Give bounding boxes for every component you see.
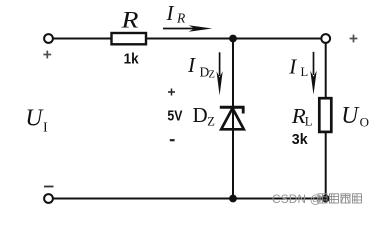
- svg-text:I: I: [288, 54, 297, 78]
- svg-text:D: D: [193, 103, 208, 127]
- zener diode DZ cathode tick: [242, 107, 245, 114]
- svg-text:3k: 3k: [292, 131, 308, 148]
- svg-text:CSDN @: CSDN @: [272, 192, 322, 206]
- polarity - zener: [170, 139, 175, 141]
- svg-text:O: O: [360, 114, 369, 129]
- arrow IR current: [163, 28, 196, 30]
- polarity + zener: [168, 89, 175, 96]
- wire zener branch vertical: [232, 39, 234, 199]
- node junction bottom load: [322, 195, 330, 203]
- svg-text:Z: Z: [207, 115, 215, 129]
- svg-text:U: U: [25, 104, 44, 131]
- node junction bottom zener: [229, 195, 237, 203]
- resistor RL: [319, 98, 331, 132]
- zener diode DZ cathode bar: [220, 106, 245, 109]
- wire bottom horizontal: [53, 198, 326, 200]
- polarity + input top: [43, 51, 51, 59]
- wire load branch vertical: [325, 42, 327, 199]
- node junction top: [229, 35, 237, 43]
- terminal output +: [321, 34, 330, 43]
- wire top horizontal: [53, 38, 322, 40]
- svg-text:R: R: [176, 10, 186, 25]
- svg-text:R: R: [291, 104, 306, 128]
- svg-text:I: I: [187, 53, 196, 77]
- svg-text:1k: 1k: [124, 51, 140, 68]
- svg-text:R: R: [120, 7, 138, 32]
- polarity + output top: [350, 35, 358, 43]
- svg-text:5V: 5V: [167, 108, 182, 125]
- svg-text:Z: Z: [209, 70, 215, 81]
- svg-text:L: L: [301, 65, 309, 79]
- svg-text:I: I: [166, 1, 175, 25]
- resistor R: [112, 33, 147, 44]
- arrow IDZ current: [219, 52, 221, 76]
- zener diode DZ triangle: [221, 108, 244, 129]
- svg-text:U: U: [341, 102, 360, 129]
- svg-text:L: L: [305, 114, 313, 128]
- terminal input -: [44, 194, 53, 203]
- polarity - input bottom: [44, 186, 54, 188]
- terminal input +: [44, 34, 53, 43]
- watermark CSDN: [272, 192, 322, 206]
- arrow IL current: [313, 52, 315, 75]
- svg-text:I: I: [43, 120, 48, 135]
- watermark username glyphs: [318, 194, 362, 203]
